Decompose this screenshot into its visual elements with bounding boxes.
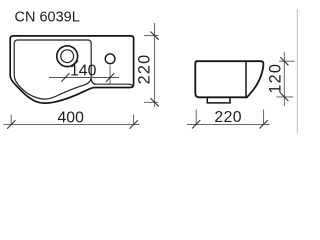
drain hole outer circle [57, 46, 78, 67]
dim 220 side view: dimension line [187, 123, 269, 125]
dim 220 side view: left tick [192, 120, 200, 128]
dim 400: left tick [7, 120, 15, 128]
dim 140: dimension line [49, 77, 119, 79]
dim 140: right tick [106, 73, 114, 81]
dim 140: left tick [61, 73, 69, 81]
side view drain stub [207, 98, 230, 103]
dim 220 side view: extension line right [263, 110, 265, 126]
dim 220 left view: extension line bottom [144, 101, 158, 103]
dim 120 side view: bottom tick [280, 93, 288, 101]
dim 120 side view: dimension line [283, 52, 285, 106]
clipped vertical line at right edge [296, 9, 298, 133]
svg-text:220: 220 [214, 109, 242, 126]
svg-text:220: 220 [135, 54, 153, 85]
dim 220 side view: extension line left [195, 110, 197, 126]
faucet hole circle [105, 54, 115, 64]
dim 140: extension line under faucet hole [109, 65, 111, 84]
dim 120 side view: extension line bottom [277, 96, 294, 98]
dim 220 left view: top tick [151, 32, 159, 40]
dim 400: dimension line [4, 124, 140, 126]
dim 220 side view: right tick [260, 120, 268, 128]
dim 220 left view: bottom tick [151, 98, 159, 106]
dim 400: extension line right [133, 115, 135, 126]
drain hole inner circle [61, 50, 74, 63]
svg-text:140: 140 [70, 62, 97, 79]
side view outline [195, 61, 263, 97]
dim 220 left view: dimension line [154, 23, 156, 107]
svg-text:CN 6039L: CN 6039L [15, 10, 80, 26]
dim 120 side view: extension line top [279, 60, 295, 62]
svg-text:400: 400 [58, 109, 85, 126]
side view division line [245, 62, 247, 97]
dim 220 left view: extension line top [144, 35, 158, 37]
deck inner rim line [91, 79, 133, 88]
diameter slash on drain [73, 61, 79, 67]
dim 400: extension line left [10, 115, 12, 126]
basin plan view: outer outline [10, 36, 133, 103]
svg-text:120: 120 [267, 63, 285, 94]
basin plan view: inner rim outline [14, 40, 91, 99]
dim 400: right tick [130, 120, 138, 128]
dim 120 side view: top tick [280, 57, 288, 65]
